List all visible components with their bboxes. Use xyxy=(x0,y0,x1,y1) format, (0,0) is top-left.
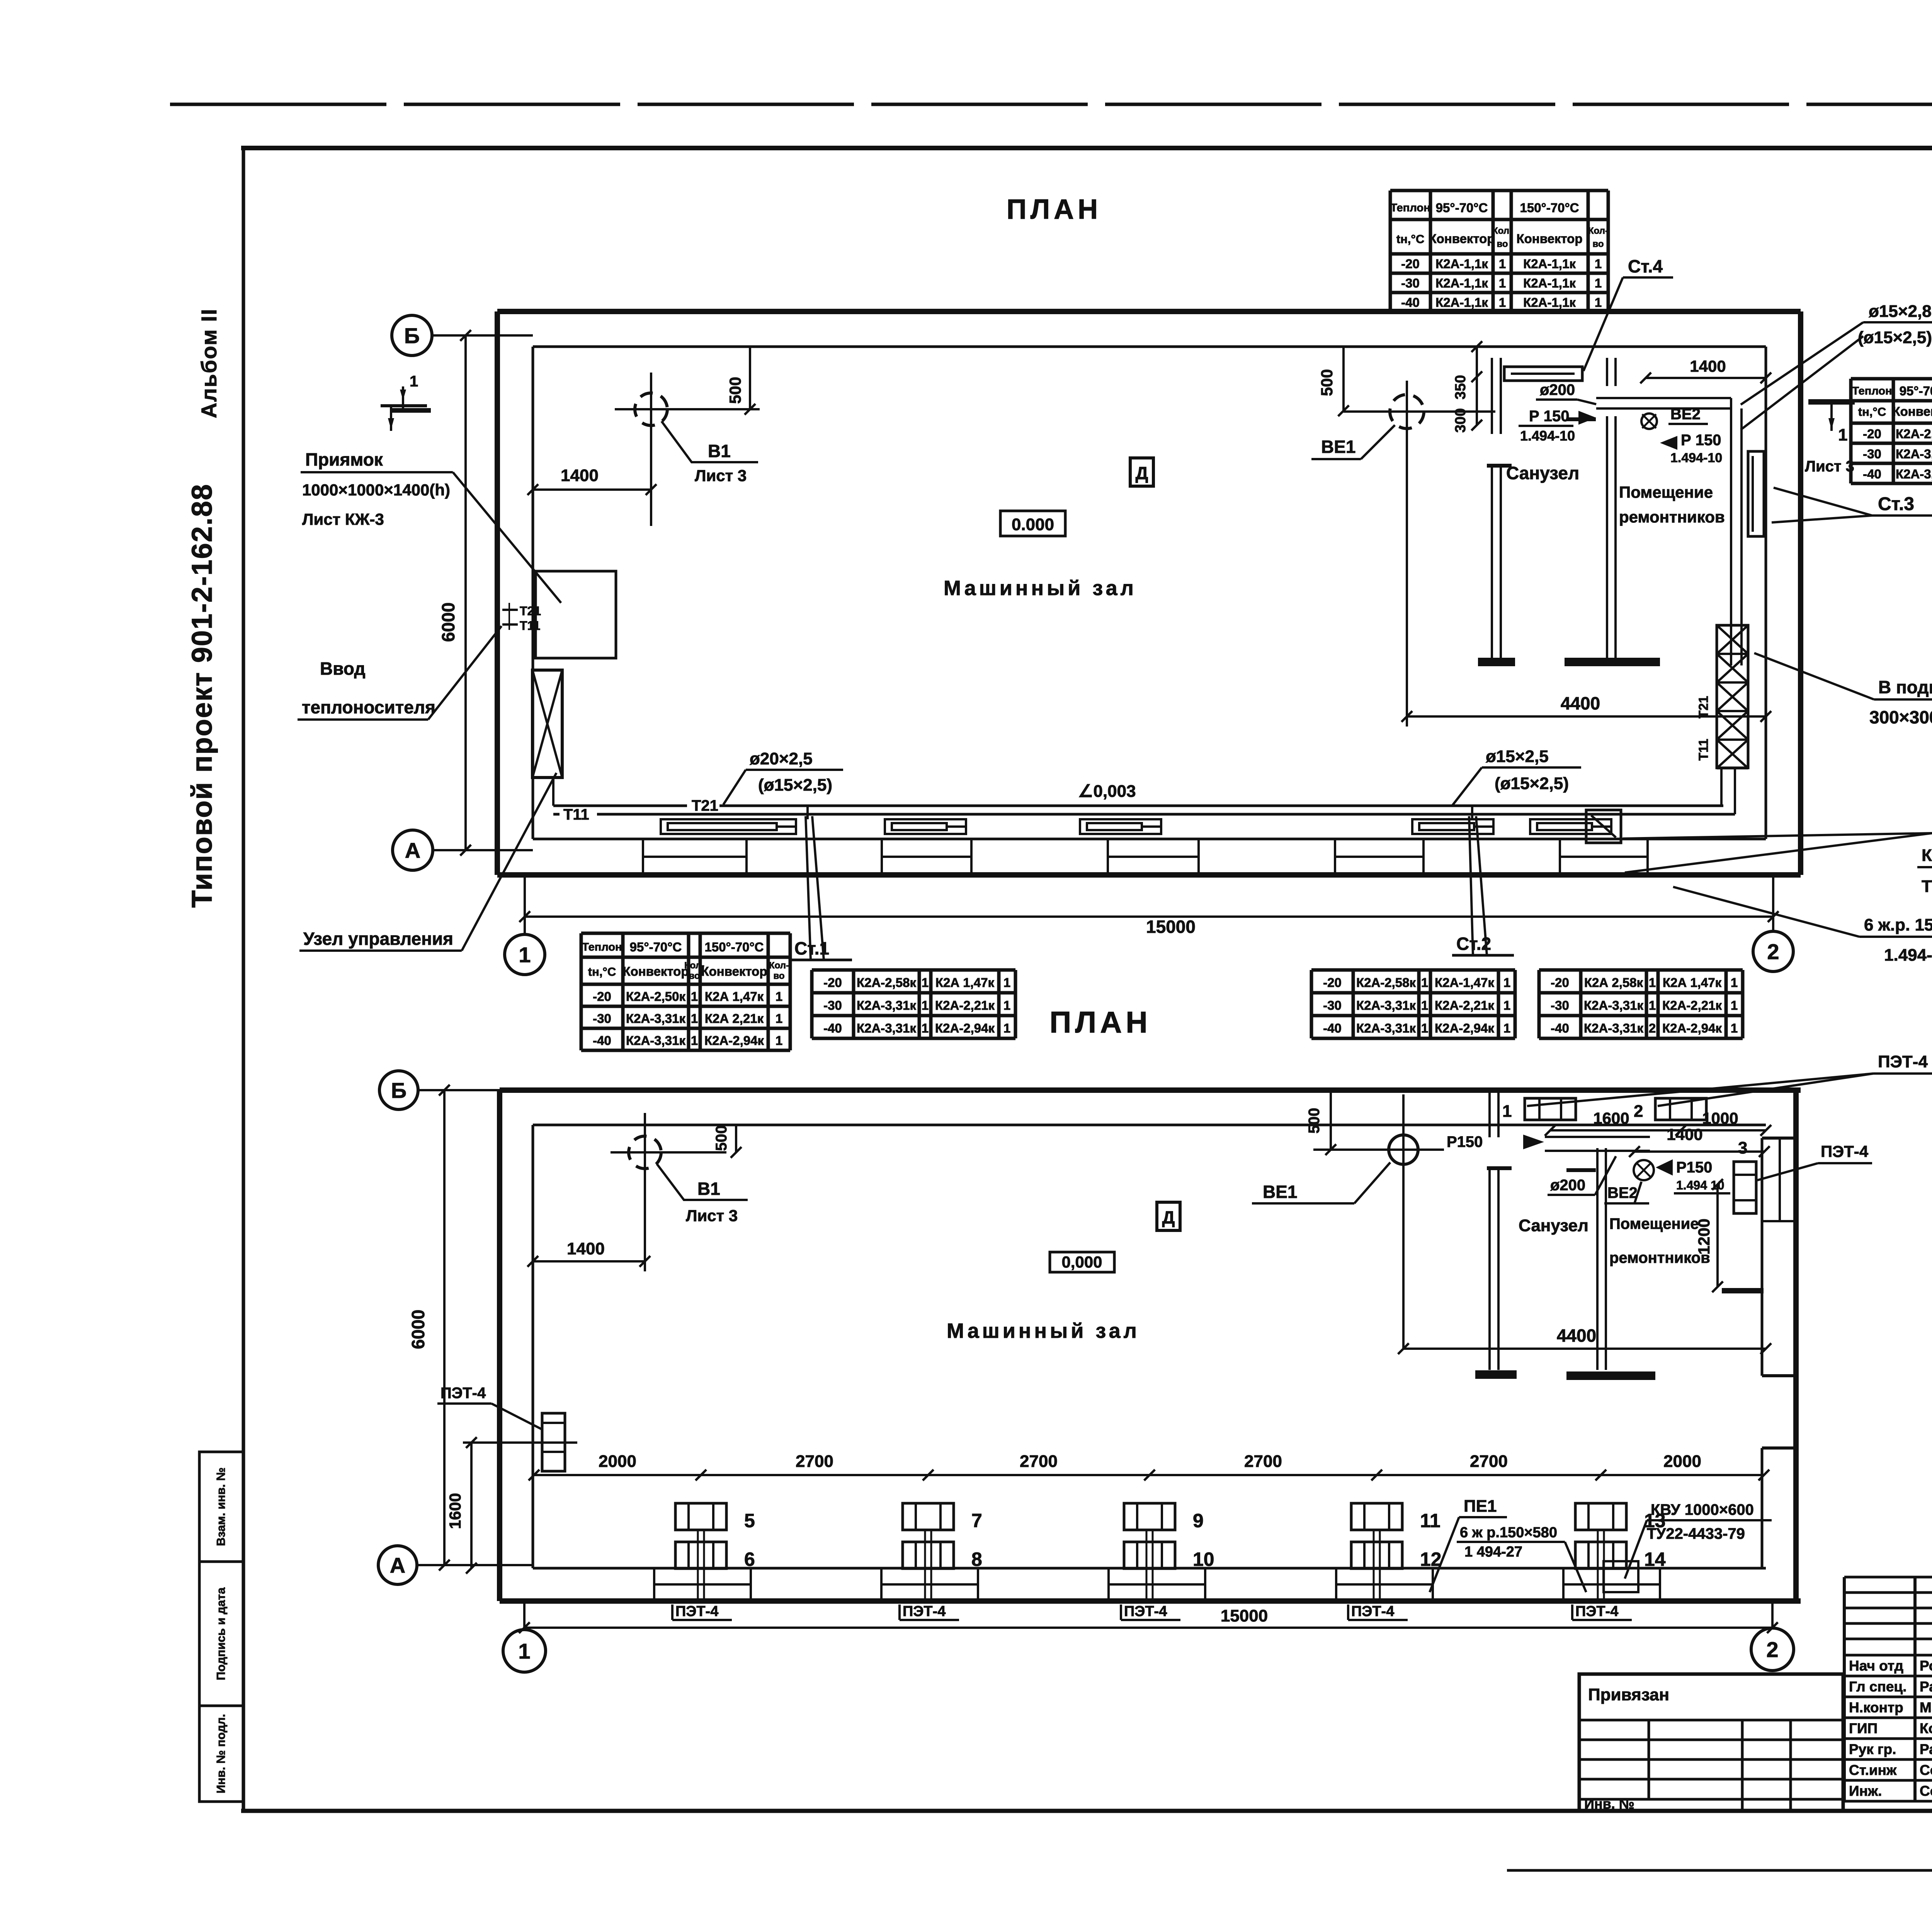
svg-text:Помещение: Помещение xyxy=(1609,1215,1699,1232)
svg-text:500: 500 xyxy=(726,377,744,404)
svg-text:1: 1 xyxy=(1503,998,1510,1012)
svg-text:1: 1 xyxy=(1649,998,1656,1012)
svg-text:во: во xyxy=(689,971,700,981)
svg-text:ПЭТ-4: ПЭТ-4 xyxy=(1821,1142,1869,1160)
svg-text:Н.контр: Н.контр xyxy=(1849,1700,1903,1715)
svg-text:К2А 1,47к: К2А 1,47к xyxy=(1663,975,1722,990)
svg-text:1400: 1400 xyxy=(1690,357,1726,375)
svg-text:11: 11 xyxy=(1420,1510,1440,1531)
svg-text:Конвектор: Конвектор xyxy=(701,964,767,978)
svg-text:1400: 1400 xyxy=(1667,1125,1702,1143)
svg-text:К2А-1,1к: К2А-1,1к xyxy=(1523,295,1576,310)
svg-text:В подпольном канале: В подпольном канале xyxy=(1878,677,1932,697)
svg-text:Лист 3: Лист 3 xyxy=(695,466,747,485)
svg-text:Т11: Т11 xyxy=(520,619,540,633)
svg-text:Т21: Т21 xyxy=(520,604,541,618)
svg-text:1: 1 xyxy=(1649,975,1656,990)
svg-text:К2А-3,31к: К2А-3,31к xyxy=(626,1033,686,1048)
svg-text:Р 150: Р 150 xyxy=(1681,432,1721,449)
svg-text:2700: 2700 xyxy=(1020,1452,1058,1471)
svg-text:-40: -40 xyxy=(823,1021,842,1035)
svg-text:Колесникова: Колесникова xyxy=(1920,1720,1932,1736)
svg-text:-30: -30 xyxy=(593,1011,611,1026)
svg-text:К2А-3,31к: К2А-3,31к xyxy=(1896,447,1932,461)
svg-text:2700: 2700 xyxy=(1244,1452,1282,1471)
svg-text:Конвектор: Конвектор xyxy=(1517,231,1583,246)
svg-text:-30: -30 xyxy=(1551,998,1569,1012)
svg-text:1: 1 xyxy=(1595,276,1602,290)
svg-text:Подпись и дата: Подпись и дата xyxy=(214,1587,228,1680)
svg-text:9: 9 xyxy=(1193,1510,1204,1531)
svg-text:Разумов: Разумов xyxy=(1920,1741,1932,1757)
svg-text:ПЭТ-4: ПЭТ-4 xyxy=(1351,1603,1394,1620)
svg-text:К2А-2,94к: К2А-2,94к xyxy=(1662,1021,1722,1035)
svg-text:1 494-27: 1 494-27 xyxy=(1464,1544,1522,1560)
svg-text:4400: 4400 xyxy=(1557,1325,1596,1346)
svg-text:во: во xyxy=(1497,239,1508,249)
svg-text:К2А-3,31к: К2А-3,31к xyxy=(857,1021,917,1035)
svg-text:14: 14 xyxy=(1644,1548,1666,1570)
svg-text:2700: 2700 xyxy=(796,1452,833,1471)
svg-text:Взам. инв. №: Взам. инв. № xyxy=(214,1467,228,1546)
svg-text:во: во xyxy=(773,971,784,981)
svg-text:6 ж.р. 150×580: 6 ж.р. 150×580 xyxy=(1864,915,1932,934)
svg-text:К2А-3,68к: К2А-3,68к xyxy=(1896,467,1932,481)
svg-text:1: 1 xyxy=(691,989,698,1004)
svg-text:Теплон: Теплон xyxy=(1852,385,1892,397)
svg-text:1: 1 xyxy=(1499,276,1506,290)
svg-text:0,000: 0,000 xyxy=(1061,1253,1102,1271)
svg-text:Т21: Т21 xyxy=(1696,696,1711,719)
svg-text:1: 1 xyxy=(922,975,929,990)
svg-text:К2А-3,31к: К2А-3,31к xyxy=(1584,1021,1644,1035)
svg-text:1: 1 xyxy=(1003,998,1010,1012)
svg-text:К2А-3,31к: К2А-3,31к xyxy=(1356,998,1416,1012)
svg-text:Солганик: Солганик xyxy=(1920,1762,1932,1778)
svg-text:ВЕ1: ВЕ1 xyxy=(1321,437,1355,457)
svg-text:5: 5 xyxy=(744,1510,755,1531)
svg-text:Гл спец.: Гл спец. xyxy=(1849,1679,1906,1695)
svg-text:0.000: 0.000 xyxy=(1012,515,1054,534)
svg-text:Конвектор: Конвектор xyxy=(1429,231,1495,246)
svg-text:1: 1 xyxy=(1731,975,1738,990)
svg-text:∠0,003: ∠0,003 xyxy=(1078,782,1136,801)
svg-text:1.494-27: 1.494-27 xyxy=(1884,946,1932,965)
svg-text:КВУ 1000×600: КВУ 1000×600 xyxy=(1651,1501,1754,1518)
svg-text:6000: 6000 xyxy=(408,1310,428,1349)
svg-text:Машинный зал: Машинный зал xyxy=(944,577,1137,600)
svg-text:-40: -40 xyxy=(593,1033,611,1048)
svg-text:ПЭТ-4: ПЭТ-4 xyxy=(1878,1052,1928,1071)
svg-text:1000: 1000 xyxy=(1702,1109,1738,1127)
svg-text:300: 300 xyxy=(1452,408,1469,432)
svg-text:К2А-2,94к: К2А-2,94к xyxy=(1435,1021,1495,1035)
svg-text:К2А-1,1к: К2А-1,1к xyxy=(1435,276,1488,290)
svg-text:К2А-1,47к: К2А-1,47к xyxy=(1435,975,1495,990)
svg-text:8: 8 xyxy=(971,1548,982,1570)
svg-text:Альбом II: Альбом II xyxy=(197,308,221,419)
svg-text:Машинный зал: Машинный зал xyxy=(947,1319,1140,1342)
svg-text:К2А-2,21к: К2А-2,21к xyxy=(935,998,995,1012)
svg-text:Конвектор: Конвектор xyxy=(1893,404,1932,419)
svg-text:К2А-3,31к: К2А-3,31к xyxy=(626,1011,686,1026)
svg-text:Инв. №: Инв. № xyxy=(1584,1796,1634,1812)
svg-text:ПЭТ-4: ПЭТ-4 xyxy=(675,1603,718,1620)
svg-text:ПЛАН: ПЛАН xyxy=(1049,1005,1151,1039)
svg-text:Узел управления: Узел управления xyxy=(303,929,453,949)
svg-text:15000: 15000 xyxy=(1146,917,1196,937)
svg-text:1: 1 xyxy=(1003,975,1010,990)
svg-text:Санузел: Санузел xyxy=(1506,463,1579,483)
svg-text:К2А 2,21к: К2А 2,21к xyxy=(705,1011,764,1026)
svg-text:К2А-2,21к: К2А-2,21к xyxy=(1662,998,1722,1012)
svg-text:2: 2 xyxy=(1766,1637,1778,1662)
svg-text:К2А-2,58к: К2А-2,58к xyxy=(1896,427,1932,441)
svg-text:ø15×2,8: ø15×2,8 xyxy=(1869,302,1932,321)
svg-text:К2А-2,50к: К2А-2,50к xyxy=(626,989,686,1004)
svg-text:-40: -40 xyxy=(1551,1021,1569,1035)
svg-text:10: 10 xyxy=(1193,1548,1214,1570)
svg-text:2: 2 xyxy=(1767,939,1779,964)
svg-text:В1: В1 xyxy=(708,441,731,461)
svg-text:1: 1 xyxy=(776,989,782,1004)
svg-text:-20: -20 xyxy=(1323,975,1342,990)
svg-text:ПЭТ-4: ПЭТ-4 xyxy=(1124,1603,1167,1620)
svg-text:К2А-1,1к: К2А-1,1к xyxy=(1435,295,1488,310)
svg-text:tн,°С: tн,°С xyxy=(588,965,616,978)
svg-text:1: 1 xyxy=(922,998,929,1012)
svg-text:К2А 2,58к: К2А 2,58к xyxy=(1584,975,1643,990)
svg-text:Т21: Т21 xyxy=(692,797,718,814)
svg-text:Кол-: Кол- xyxy=(769,960,789,971)
svg-text:В1: В1 xyxy=(697,1179,720,1199)
svg-text:350: 350 xyxy=(1452,375,1469,399)
svg-text:1: 1 xyxy=(1499,257,1506,271)
svg-text:-20: -20 xyxy=(1551,975,1569,990)
svg-text:ø200: ø200 xyxy=(1550,1177,1585,1194)
svg-text:ПЭТ-4: ПЭТ-4 xyxy=(903,1603,946,1620)
svg-text:-30: -30 xyxy=(1323,998,1342,1012)
svg-text:1600: 1600 xyxy=(1593,1109,1629,1127)
svg-text:1: 1 xyxy=(1499,295,1506,310)
svg-text:К2А-2,21к: К2А-2,21к xyxy=(1435,998,1495,1012)
svg-text:ГИП: ГИП xyxy=(1849,1720,1878,1736)
svg-text:Романов: Романов xyxy=(1920,1658,1932,1674)
svg-text:теплоносителя: теплоносителя xyxy=(302,697,435,717)
svg-text:2: 2 xyxy=(1634,1102,1643,1121)
svg-text:-40: -40 xyxy=(1863,467,1881,481)
svg-text:7: 7 xyxy=(971,1510,982,1531)
svg-text:К2А 1,47к: К2А 1,47к xyxy=(935,975,995,990)
svg-text:1.494-10: 1.494-10 xyxy=(1670,451,1722,465)
svg-text:6: 6 xyxy=(744,1548,755,1570)
svg-text:1600: 1600 xyxy=(446,1493,464,1529)
svg-text:Д: Д xyxy=(1162,1207,1175,1227)
svg-text:1: 1 xyxy=(1731,998,1738,1012)
svg-text:1: 1 xyxy=(1421,975,1428,990)
svg-text:К2А-2,94к: К2А-2,94к xyxy=(935,1021,995,1035)
svg-text:95°-70°С: 95°-70°С xyxy=(1436,201,1488,215)
svg-text:К2А-1,1к: К2А-1,1к xyxy=(1435,257,1488,271)
svg-text:Мансурова: Мансурова xyxy=(1920,1700,1932,1715)
svg-text:Т11: Т11 xyxy=(563,806,589,823)
svg-text:-30: -30 xyxy=(823,998,842,1012)
svg-text:Р 150: Р 150 xyxy=(1529,408,1570,425)
svg-text:Ввод: Ввод xyxy=(320,658,366,679)
svg-text:ВЕ2: ВЕ2 xyxy=(1670,406,1701,423)
svg-text:(ø15×2,5): (ø15×2,5) xyxy=(1858,328,1932,347)
svg-text:2: 2 xyxy=(1649,1021,1656,1035)
svg-text:-20: -20 xyxy=(593,989,611,1004)
svg-text:1: 1 xyxy=(1003,1021,1010,1035)
svg-text:Рук гр.: Рук гр. xyxy=(1849,1741,1896,1757)
svg-text:6 ж р.150×580: 6 ж р.150×580 xyxy=(1460,1525,1557,1541)
svg-text:1.494-10: 1.494-10 xyxy=(1520,428,1575,444)
svg-text:1: 1 xyxy=(691,1011,698,1026)
svg-text:150°-70°С: 150°-70°С xyxy=(705,940,764,954)
svg-text:Типовой проект 901-2-162.88: Типовой проект 901-2-162.88 xyxy=(186,483,218,908)
svg-text:(ø15×2,5): (ø15×2,5) xyxy=(758,776,832,795)
svg-text:К2А-1,1к: К2А-1,1к xyxy=(1523,276,1576,290)
svg-text:tн,°С: tн,°С xyxy=(1396,232,1424,246)
svg-text:Б: Б xyxy=(391,1078,406,1103)
svg-text:1: 1 xyxy=(776,1033,782,1048)
svg-text:1000×1000×1400(h): 1000×1000×1400(h) xyxy=(302,481,450,499)
svg-text:А: А xyxy=(390,1553,405,1577)
svg-text:1: 1 xyxy=(1421,1021,1428,1035)
svg-text:Б: Б xyxy=(404,323,420,348)
svg-text:1: 1 xyxy=(519,943,531,967)
svg-text:Кол-: Кол- xyxy=(1588,226,1608,236)
svg-text:(ø15×2,5): (ø15×2,5) xyxy=(1495,774,1569,793)
svg-text:Кол-: Кол- xyxy=(1492,226,1512,236)
svg-text:1200: 1200 xyxy=(1695,1218,1713,1254)
svg-text:К2А-2,94к: К2А-2,94к xyxy=(704,1033,764,1048)
svg-text:Д: Д xyxy=(1136,463,1148,483)
svg-text:Лист 3: Лист 3 xyxy=(686,1206,738,1225)
svg-text:ВЕ2: ВЕ2 xyxy=(1607,1184,1638,1201)
svg-text:1: 1 xyxy=(1595,295,1602,310)
svg-text:Конвектор: Конвектор xyxy=(623,964,689,978)
svg-text:ремонтников: ремонтников xyxy=(1619,508,1725,526)
svg-text:-40: -40 xyxy=(1401,295,1420,310)
svg-text:500: 500 xyxy=(1306,1108,1323,1134)
svg-text:1: 1 xyxy=(1838,425,1847,444)
svg-text:Соловьева: Соловьева xyxy=(1920,1783,1932,1799)
svg-text:Привязан: Привязан xyxy=(1588,1685,1669,1704)
svg-text:Теплон: Теплон xyxy=(582,941,622,953)
svg-text:Кол-: Кол- xyxy=(684,960,704,971)
svg-text:1: 1 xyxy=(1502,1102,1512,1121)
svg-text:Лист КЖ-3: Лист КЖ-3 xyxy=(302,510,384,528)
svg-text:500: 500 xyxy=(713,1125,730,1151)
svg-text:-20: -20 xyxy=(823,975,842,990)
svg-text:15000: 15000 xyxy=(1221,1606,1268,1625)
svg-text:К2А-3,31к: К2А-3,31к xyxy=(1356,1021,1416,1035)
svg-text:1: 1 xyxy=(1503,1021,1510,1035)
svg-text:1: 1 xyxy=(691,1033,698,1048)
svg-text:150°-70°С: 150°-70°С xyxy=(1520,201,1579,215)
svg-text:4400: 4400 xyxy=(1561,693,1600,713)
svg-text:500: 500 xyxy=(1318,369,1336,396)
svg-text:300×300 (h). Лист КЖ-3: 300×300 (h). Лист КЖ-3 xyxy=(1869,707,1932,727)
svg-text:Теплон: Теплон xyxy=(1390,202,1430,214)
svg-text:Инв. № подл.: Инв. № подл. xyxy=(214,1714,228,1793)
svg-text:Приямок: Приямок xyxy=(305,449,383,470)
svg-text:2700: 2700 xyxy=(1470,1452,1508,1471)
svg-text:во: во xyxy=(1592,239,1604,249)
svg-text:1: 1 xyxy=(1731,1021,1738,1035)
svg-text:ВЕ1: ВЕ1 xyxy=(1263,1182,1297,1202)
svg-text:Лист 3: Лист 3 xyxy=(1805,458,1854,475)
svg-text:3: 3 xyxy=(1738,1138,1747,1157)
svg-text:-20: -20 xyxy=(1863,427,1881,441)
svg-text:ТУ22-4433-79: ТУ22-4433-79 xyxy=(1647,1525,1745,1542)
svg-text:95°-70°С: 95°-70°С xyxy=(630,940,682,954)
svg-text:ТУ 22-4433-79: ТУ 22-4433-79 xyxy=(1922,877,1932,896)
svg-text:ПЭТ-4: ПЭТ-4 xyxy=(1575,1603,1618,1620)
svg-text:ø200: ø200 xyxy=(1540,381,1575,398)
svg-text:Помещение: Помещение xyxy=(1619,483,1713,501)
svg-text:Т11: Т11 xyxy=(1696,739,1711,761)
svg-text:-20: -20 xyxy=(1401,257,1420,271)
svg-text:1: 1 xyxy=(922,1021,929,1035)
svg-text:К2А 1,47к: К2А 1,47к xyxy=(705,989,764,1004)
svg-text:2000: 2000 xyxy=(1663,1452,1701,1471)
svg-text:Р150: Р150 xyxy=(1676,1159,1712,1176)
svg-text:-30: -30 xyxy=(1863,447,1881,461)
svg-text:2000: 2000 xyxy=(599,1452,636,1471)
svg-text:Нач отд: Нач отд xyxy=(1849,1658,1903,1674)
svg-text:ПЭТ-4: ПЭТ-4 xyxy=(440,1385,486,1402)
svg-text:КВУ 1000×600: КВУ 1000×600 xyxy=(1922,846,1932,865)
svg-text:Ст.4: Ст.4 xyxy=(1628,256,1663,276)
svg-text:1: 1 xyxy=(1595,257,1602,271)
svg-text:ø15×2,5: ø15×2,5 xyxy=(1486,747,1549,766)
svg-text:К2А-2,58к: К2А-2,58к xyxy=(1356,975,1416,990)
svg-text:1400: 1400 xyxy=(561,466,599,485)
svg-text:95°-70°С: 95°-70°С xyxy=(1900,384,1932,398)
svg-text:1: 1 xyxy=(1503,975,1510,990)
svg-text:Инж.: Инж. xyxy=(1849,1783,1882,1799)
svg-text:К2А-2,58к: К2А-2,58к xyxy=(857,975,917,990)
svg-text:1400: 1400 xyxy=(567,1239,605,1258)
svg-text:1: 1 xyxy=(776,1011,782,1026)
svg-text:К2А-1,1к: К2А-1,1к xyxy=(1523,257,1576,271)
svg-text:-40: -40 xyxy=(1323,1021,1342,1035)
svg-text:К2А-3,31к: К2А-3,31к xyxy=(857,998,917,1012)
svg-text:tн,°С: tн,°С xyxy=(1858,405,1886,419)
svg-text:Ст.инж: Ст.инж xyxy=(1849,1762,1897,1778)
svg-text:12: 12 xyxy=(1420,1548,1442,1570)
svg-text:Санузел: Санузел xyxy=(1519,1216,1588,1235)
svg-text:А: А xyxy=(405,838,420,863)
svg-text:К2А-3,31к: К2А-3,31к xyxy=(1584,998,1644,1012)
svg-text:ПЛАН: ПЛАН xyxy=(1007,194,1102,225)
svg-text:1: 1 xyxy=(518,1639,530,1663)
svg-text:1: 1 xyxy=(1421,998,1428,1012)
svg-text:Р150: Р150 xyxy=(1447,1133,1483,1150)
svg-text:6000: 6000 xyxy=(438,602,458,642)
svg-text:1: 1 xyxy=(410,373,418,390)
svg-text:-30: -30 xyxy=(1401,276,1420,290)
svg-text:Разувайкин: Разувайкин xyxy=(1920,1679,1932,1695)
svg-text:ø20×2,5: ø20×2,5 xyxy=(750,749,813,768)
svg-text:Ст.3: Ст.3 xyxy=(1878,494,1914,514)
svg-text:ПЕ1: ПЕ1 xyxy=(1464,1497,1497,1516)
